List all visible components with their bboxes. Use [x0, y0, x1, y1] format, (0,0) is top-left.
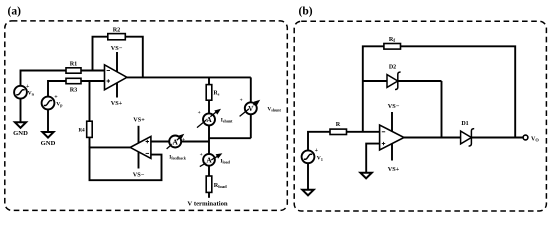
- svg-text:(a): (a): [8, 6, 22, 18]
- wire U1 output bus: [127, 76, 251, 78]
- wire R3 to U1 non-inverting input: [81, 80, 105, 82]
- svg-text:Ishunt: Ishunt: [221, 118, 233, 124]
- op-amp U2 buffer: [130, 136, 151, 158]
- source Vn: [14, 84, 35, 99]
- resistor R2: [108, 27, 126, 40]
- wire R to U3 inverting input: [347, 131, 380, 133]
- ground GND (Vn): [13, 122, 28, 137]
- svg-text:D2: D2: [389, 65, 396, 71]
- op-amp U1: [105, 65, 128, 90]
- wire Iload to Rload: [208, 166, 210, 176]
- wire Rs to Ishunt: [208, 100, 210, 113]
- svg-text:+: +: [200, 152, 203, 158]
- svg-text:VS+: VS+: [388, 166, 400, 173]
- svg-text:VS−: VS−: [133, 172, 145, 179]
- power VS+ (U1): [111, 82, 123, 107]
- wire Vn to R1: [21, 71, 67, 86]
- svg-text:+: +: [198, 110, 201, 116]
- resistor Rload: [206, 176, 227, 192]
- resistor R3: [66, 78, 81, 93]
- svg-text:R1: R1: [70, 61, 78, 68]
- ammeter Ishunt: [197, 107, 233, 128]
- wire U3 non-inverting input to ground: [366, 144, 379, 173]
- wire Vn to ground: [20, 99, 22, 123]
- wire Rload to termination: [208, 192, 210, 197]
- wire output bus to Rs: [208, 77, 210, 84]
- svg-text:Rf: Rf: [389, 36, 395, 44]
- ground (U3 input): [360, 173, 371, 179]
- svg-text:A: A: [206, 156, 212, 165]
- svg-text:Iload: Iload: [220, 158, 230, 164]
- svg-text:Vshunt: Vshunt: [267, 106, 281, 112]
- svg-text:VS−: VS−: [111, 45, 123, 52]
- power VS+ (U3): [388, 144, 400, 174]
- resistor Rs: [206, 85, 220, 101]
- diode D2: [387, 65, 401, 90]
- svg-text:D1: D1: [461, 121, 468, 127]
- ground GND (Vp): [41, 132, 56, 147]
- svg-text:Ifeedback: Ifeedback: [169, 155, 186, 161]
- wire R4 branch: [89, 81, 91, 121]
- wire Vp to R3: [48, 81, 66, 97]
- wire U2 output and feedback loop: [90, 147, 162, 180]
- svg-text:R2: R2: [113, 27, 121, 34]
- wire U3 output to D1: [404, 137, 461, 139]
- svg-text:R3: R3: [70, 87, 78, 94]
- resistor R1: [66, 61, 81, 74]
- svg-text:R4: R4: [78, 128, 85, 133]
- resistor Rf: [384, 36, 401, 49]
- wire D2 branch: [363, 81, 442, 138]
- wire Vshunt return: [250, 114, 252, 138]
- node Vo output terminal: [523, 135, 539, 142]
- svg-text:GND: GND: [13, 130, 28, 137]
- svg-text:R: R: [336, 121, 341, 128]
- ammeter Ifeedback: [167, 132, 187, 161]
- svg-text:A: A: [206, 115, 212, 124]
- svg-text:+: +: [26, 84, 30, 90]
- svg-text:Vn: Vn: [28, 90, 35, 96]
- wire R4 to U2 output node: [89, 137, 91, 147]
- svg-text:+: +: [54, 94, 58, 100]
- source V1: [302, 148, 323, 163]
- wire D1 to output terminal: [471, 137, 523, 139]
- wire node to Vshunt return: [209, 137, 251, 139]
- source Vp: [42, 94, 64, 109]
- wire Ifeedback to shunt column: [181, 141, 209, 143]
- svg-text:+: +: [240, 97, 243, 103]
- svg-text:V termination: V termination: [187, 200, 228, 207]
- voltmeter Vshunt: [240, 97, 282, 116]
- svg-text:Vp: Vp: [56, 101, 63, 107]
- ammeter Iload: [200, 151, 231, 167]
- wire Ishunt to Iload: [208, 125, 210, 153]
- power VS- (U3): [388, 103, 400, 132]
- power VS+ (U2): [133, 116, 145, 143]
- svg-text:V1: V1: [317, 156, 323, 162]
- svg-text:VS−: VS−: [388, 103, 400, 110]
- svg-text:+: +: [315, 148, 319, 154]
- diode D1: [461, 121, 475, 146]
- svg-text:GND: GND: [41, 140, 56, 147]
- svg-text:VS+: VS+: [133, 116, 145, 123]
- wire R1 to U1 inverting input: [81, 70, 105, 72]
- wire Vp to ground: [47, 109, 49, 132]
- svg-text:Rs: Rs: [213, 91, 219, 97]
- op-amp U3: [380, 125, 404, 150]
- resistor R: [330, 121, 347, 135]
- svg-text:VO: VO: [531, 136, 539, 142]
- svg-text:A: A: [173, 137, 179, 146]
- power VS- (U2): [133, 152, 145, 179]
- ground (V1): [302, 190, 313, 196]
- wire R2 feedback loop: [93, 37, 143, 78]
- power VS- (U1): [111, 45, 123, 72]
- wire Rf feedback loop: [363, 46, 515, 137]
- wire U2 input to Ifeedback: [151, 141, 169, 143]
- resistor R4: [78, 121, 92, 137]
- wire output bus to Vshunt: [250, 77, 252, 102]
- svg-text:VS+: VS+: [111, 100, 123, 107]
- svg-text:Rload: Rload: [214, 182, 227, 189]
- svg-text:V: V: [248, 104, 254, 113]
- svg-text:(b): (b): [299, 6, 313, 18]
- wire V1 to ground: [307, 163, 309, 190]
- wire V1 to R: [308, 132, 330, 151]
